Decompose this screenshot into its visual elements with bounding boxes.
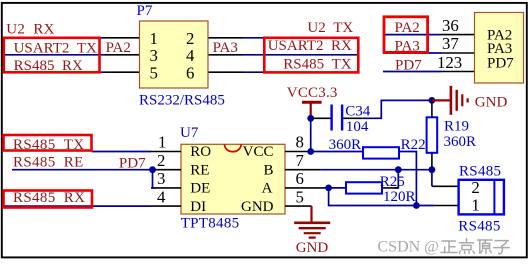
svg-text:120R: 120R xyxy=(383,189,416,205)
svg-text:PA2: PA2 xyxy=(395,20,420,36)
resistor R19 body xyxy=(427,117,438,153)
pin line P7-4 xyxy=(208,54,243,56)
VCC3.3 bar symbol xyxy=(302,101,322,104)
svg-text:1: 1 xyxy=(158,133,166,152)
MCU body fragment xyxy=(475,13,524,84)
svg-text:PA2: PA2 xyxy=(106,40,131,56)
svg-text:RS485: RS485 xyxy=(458,219,500,235)
junction dot B/R19 xyxy=(429,166,436,173)
svg-text:U2 RX: U2 RX xyxy=(6,22,54,38)
svg-text:PD7: PD7 xyxy=(487,56,514,72)
pin line 37 xyxy=(441,52,475,54)
svg-text:VCC: VCC xyxy=(243,144,274,160)
GND power stub xyxy=(432,99,450,101)
junction dot A/R22 xyxy=(413,202,420,209)
svg-text:5: 5 xyxy=(150,63,158,82)
svg-text:R19: R19 xyxy=(444,119,469,135)
red highlight box 2 xyxy=(264,38,358,73)
wire junction down to pin3 xyxy=(153,170,156,188)
resistor R25 body xyxy=(346,182,382,193)
svg-text:GND: GND xyxy=(296,240,329,256)
junction dot GND net xyxy=(429,97,436,104)
wire PA2 xyxy=(383,34,441,36)
svg-text:2: 2 xyxy=(186,29,194,48)
pin line U7-3 xyxy=(151,187,181,189)
watermark hanzi (drawn) xyxy=(441,239,509,254)
R19 top pin xyxy=(431,100,433,117)
red highlight box PA2/PA3 xyxy=(384,17,428,53)
svg-text:USART2 TX: USART2 TX xyxy=(14,40,97,56)
svg-text:RS485 RX: RS485 RX xyxy=(13,190,85,206)
wire U2_RX to P7 pin1 xyxy=(98,37,105,39)
svg-text:PD7: PD7 xyxy=(395,57,422,73)
svg-text:2: 2 xyxy=(471,178,479,197)
svg-text:6: 6 xyxy=(296,169,304,188)
svg-text:C34: C34 xyxy=(345,104,371,120)
GND symbol (sideways) xyxy=(450,86,453,115)
svg-text:1: 1 xyxy=(471,195,479,214)
svg-text:P7: P7 xyxy=(137,3,153,19)
wire USART2_TX to P7 pin3 xyxy=(3,54,105,56)
capacitor C34 left pin xyxy=(311,117,331,119)
svg-text:104: 104 xyxy=(346,119,369,135)
junction dot RE/DE xyxy=(149,166,156,173)
U7 body xyxy=(181,144,285,214)
svg-text:PA3: PA3 xyxy=(213,40,238,56)
svg-text:RS485 TX: RS485 TX xyxy=(283,57,352,73)
pin line U7-4 xyxy=(151,205,181,207)
wire RS485_RX to U7 pin4 xyxy=(4,205,151,207)
svg-text:TPT8485: TPT8485 xyxy=(181,216,240,232)
svg-text:CSDN @: CSDN @ xyxy=(378,239,439,256)
svg-text:RO: RO xyxy=(190,144,211,160)
svg-text:DI: DI xyxy=(190,199,206,215)
VCC3.3 stem xyxy=(310,102,312,117)
wire R25 right up to B xyxy=(395,170,398,188)
svg-text:8: 8 xyxy=(296,133,304,152)
junction dot A/pin6 xyxy=(325,185,332,192)
pin line P7-2 xyxy=(208,37,243,39)
junction dot B/R25 xyxy=(395,166,402,173)
svg-text:6: 6 xyxy=(186,63,194,82)
svg-text:5: 5 xyxy=(296,187,304,206)
connector body xyxy=(459,180,504,215)
pin line P7-1 xyxy=(105,37,140,39)
svg-text:7: 7 xyxy=(296,151,304,170)
svg-text:VCC3.3: VCC3.3 xyxy=(287,85,338,101)
pin line 123 xyxy=(441,71,475,73)
R19 bottom pin xyxy=(431,153,433,170)
pin line P7-6 xyxy=(208,71,243,73)
svg-text:3: 3 xyxy=(150,46,158,65)
svg-text:RS485 RE: RS485 RE xyxy=(13,154,84,170)
svg-text:RE: RE xyxy=(190,162,209,178)
wire pin6 to R25 xyxy=(323,187,347,189)
red highlight box 3 xyxy=(4,135,92,151)
svg-text:GND: GND xyxy=(241,199,274,215)
wire VCC dot down to pin8 xyxy=(310,118,312,151)
svg-text:R25: R25 xyxy=(380,174,405,190)
svg-text:360R: 360R xyxy=(444,134,477,150)
wire PD7 xyxy=(383,71,441,73)
svg-text:B: B xyxy=(263,162,273,178)
svg-text:4: 4 xyxy=(186,46,195,65)
svg-text:RS485: RS485 xyxy=(459,164,501,180)
connector pin1 line xyxy=(434,205,459,207)
svg-text:123: 123 xyxy=(437,53,462,72)
connector pin2 line xyxy=(432,185,459,187)
pin line P7-5 xyxy=(105,71,140,73)
wire P7 pin6 to RS485_TX xyxy=(243,71,358,73)
svg-text:U2 TX: U2 TX xyxy=(307,20,353,36)
svg-text:3: 3 xyxy=(157,169,165,188)
svg-text:PD7: PD7 xyxy=(119,155,146,171)
connector P7 body xyxy=(140,21,209,88)
svg-text:A: A xyxy=(262,181,273,197)
wire pin7 B to R19 xyxy=(320,169,432,171)
svg-text:PA3: PA3 xyxy=(395,38,420,54)
wire pin8 to R22 xyxy=(311,151,363,153)
pin line P7-3 xyxy=(105,54,140,56)
pin line 36 xyxy=(441,34,475,36)
red highlight box 4 xyxy=(4,191,93,208)
R25 right pin xyxy=(382,187,398,189)
pin line U7-5 xyxy=(285,205,312,207)
svg-text:R22: R22 xyxy=(401,137,426,153)
wire PA3 xyxy=(383,52,441,54)
svg-text:USART2 RX: USART2 RX xyxy=(268,38,352,54)
GND below U7: stem xyxy=(310,206,312,222)
wire RS485_RX to P7 pin5 xyxy=(3,71,105,73)
svg-text:37: 37 xyxy=(442,34,459,53)
wire RS485_RE to junction xyxy=(12,169,153,171)
resistor R22 body xyxy=(363,147,399,158)
wire B down to connector pin2 xyxy=(431,170,433,187)
svg-text:U7: U7 xyxy=(180,125,199,141)
junction dot VCC xyxy=(307,115,314,122)
pin line U7-1 xyxy=(151,151,181,153)
svg-text:DE: DE xyxy=(190,181,210,197)
svg-text:GND: GND xyxy=(475,94,508,110)
wire C34 to GND corner xyxy=(362,100,432,118)
U7 notch arc xyxy=(225,144,242,151)
wire A down and right to connector pin1 xyxy=(329,188,434,206)
svg-text:RS232/RS485: RS232/RS485 xyxy=(139,93,225,109)
capacitor C34 right pin xyxy=(343,117,362,119)
svg-text:2: 2 xyxy=(157,151,165,170)
pin line U7-7 xyxy=(285,169,320,171)
capacitor C34 plates xyxy=(330,105,332,131)
wire P7 pin4 to USART2_RX xyxy=(243,54,358,56)
pin line U7-6 xyxy=(285,187,323,189)
wire R22 right, down to A net xyxy=(399,152,416,206)
connector inner line xyxy=(493,180,495,215)
svg-text:1: 1 xyxy=(150,29,158,48)
wire RS485_TX to U7 pin1 xyxy=(92,151,152,153)
red highlight box 1 xyxy=(4,38,100,73)
junction dot pin8 xyxy=(307,148,314,155)
pin line U7-8 xyxy=(285,151,308,153)
svg-text:36: 36 xyxy=(442,16,459,35)
wire P7 pin2 to U2_TX xyxy=(243,37,358,39)
pin line U7-2 xyxy=(151,169,181,171)
svg-text:360R: 360R xyxy=(329,137,362,153)
GND symbol bars xyxy=(294,222,330,225)
svg-text:4: 4 xyxy=(157,187,166,206)
